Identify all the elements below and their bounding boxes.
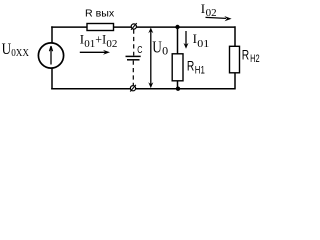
svg-text:R: R [187, 59, 195, 74]
svg-text:U: U [2, 41, 12, 58]
svg-text:01: 01 [84, 38, 95, 50]
svg-text:I: I [201, 1, 205, 16]
svg-text:I: I [193, 31, 197, 46]
svg-text:Н1: Н1 [195, 65, 205, 77]
svg-text:01: 01 [197, 38, 209, 50]
svg-text:02: 02 [106, 38, 117, 50]
svg-text:R вых: R вых [85, 8, 115, 20]
svg-text:C: C [137, 44, 142, 56]
svg-text:R: R [242, 47, 250, 62]
svg-text:+I: +I [95, 31, 106, 46]
svg-text:0XX: 0XX [11, 47, 29, 59]
svg-text:02: 02 [206, 7, 217, 19]
svg-text:U: U [152, 38, 162, 57]
svg-text:Н2: Н2 [250, 53, 260, 65]
svg-text:0: 0 [162, 44, 168, 58]
